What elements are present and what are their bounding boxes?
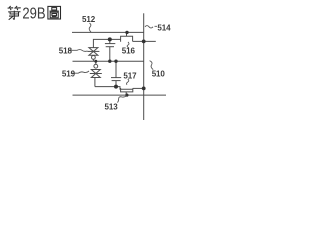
svg-text:516: 516 [122,46,136,55]
svg-text:512: 512 [82,15,96,24]
svg-text:519: 519 [62,69,76,78]
svg-text:513: 513 [105,102,119,111]
svg-text:517: 517 [123,71,137,80]
svg-text:518: 518 [59,46,73,55]
svg-text:510: 510 [152,70,166,79]
svg-text:29B: 29B [22,6,45,23]
svg-text:514: 514 [157,23,171,32]
